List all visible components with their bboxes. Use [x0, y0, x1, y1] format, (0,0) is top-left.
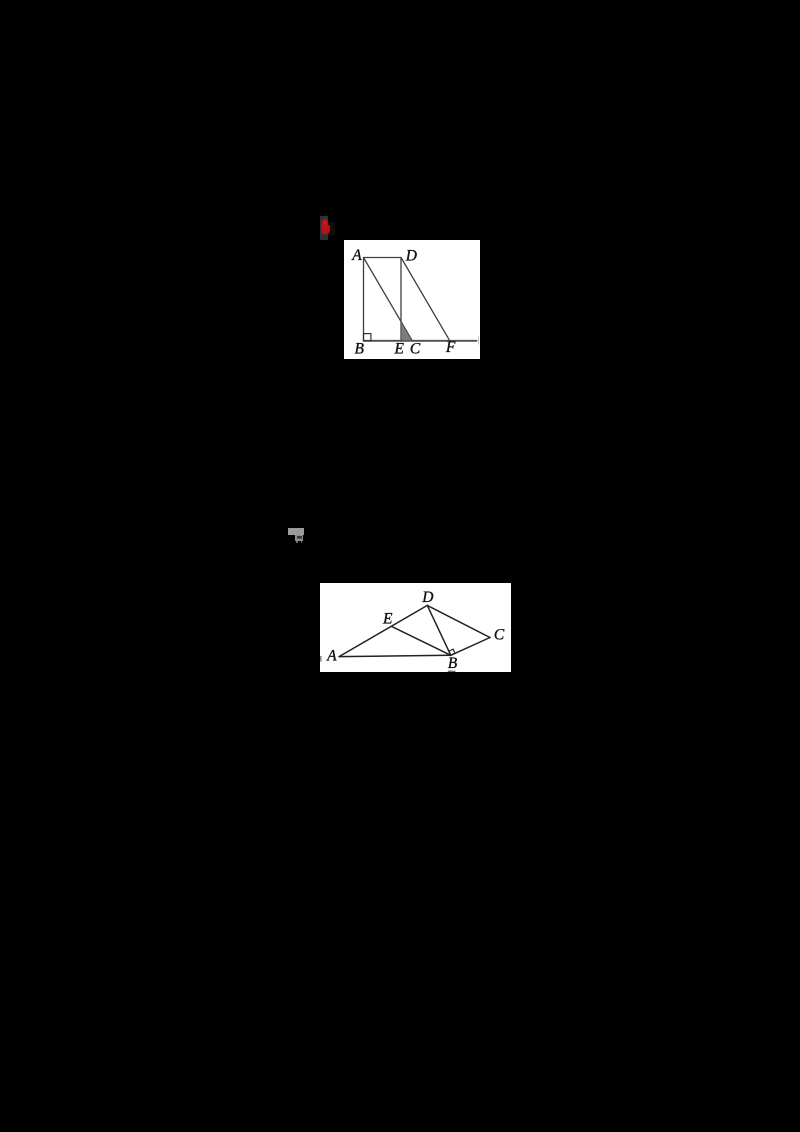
- side AD: [364, 256, 401, 258]
- segment DB: [427, 605, 451, 655]
- svg-text:A: A: [351, 246, 362, 263]
- right angle mark at B: [449, 649, 455, 655]
- svg-text:E: E: [382, 611, 393, 628]
- svg-text:F: F: [445, 338, 456, 355]
- diagonal AC: [364, 257, 413, 340]
- base line B to right: [364, 339, 477, 341]
- right angle mark at B: [364, 333, 371, 340]
- svg-text:C: C: [494, 626, 505, 643]
- segment EB: [391, 626, 450, 655]
- side BC: [450, 638, 489, 656]
- svg-text:B: B: [354, 340, 364, 357]
- side DE: [400, 257, 402, 340]
- red stamp mark: [318, 216, 340, 240]
- gray stamp mark top bar: [288, 528, 304, 535]
- svg-text:A: A: [326, 647, 337, 664]
- side AB: [339, 655, 451, 656]
- red stamp mark dark halo: [329, 222, 335, 236]
- shaded triangle at E C: [401, 321, 412, 340]
- panel background: [320, 583, 511, 672]
- gray stamp legs: [296, 541, 298, 543]
- figure panel 2 (quadrilateral ABCD with E): [320, 583, 511, 672]
- edge artifact left: [320, 656, 322, 662]
- svg-text:D: D: [405, 247, 417, 264]
- svg-text:C: C: [410, 340, 421, 357]
- figure panel 1 (trapezoid ABFD with triangles): [344, 240, 480, 360]
- side DC: [427, 605, 490, 637]
- edge artifact below B: [447, 671, 455, 672]
- red stamp mark backdrop: [320, 216, 329, 240]
- panel background: [344, 240, 480, 360]
- svg-text:B: B: [447, 655, 457, 672]
- side AB: [363, 257, 365, 340]
- svg-text:E: E: [393, 340, 404, 357]
- diagonal DF: [401, 257, 450, 340]
- gray stamp mark stripes: [297, 536, 302, 537]
- gray stamp mark body: [295, 535, 303, 541]
- base end tick: [477, 336, 480, 344]
- svg-text:D: D: [421, 589, 433, 606]
- side AD through E: [339, 605, 427, 656]
